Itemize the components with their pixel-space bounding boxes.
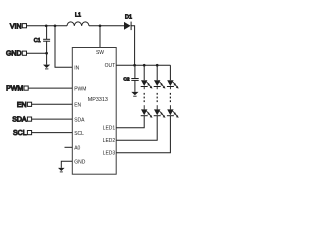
svg-text:MP3313: MP3313	[88, 97, 108, 103]
terminal SDA	[12, 117, 31, 124]
svg-text:SCL: SCL	[74, 131, 84, 137]
svg-text:SW: SW	[96, 50, 104, 56]
svg-text:PWM: PWM	[6, 86, 23, 93]
ground IC GND	[58, 168, 65, 172]
svg-text:EN: EN	[17, 102, 27, 109]
terminal GND	[6, 51, 27, 58]
wire SCL	[32, 132, 73, 134]
svg-text:LED1: LED1	[103, 126, 116, 132]
wire D1 to OUT node	[131, 26, 135, 65]
svg-text:L1: L1	[75, 12, 81, 18]
wire C2 branch	[134, 65, 136, 78]
svg-text:C2: C2	[123, 77, 129, 83]
wire PWM	[28, 87, 72, 89]
svg-text:OUT: OUT	[105, 63, 116, 69]
LED D6 string3 top	[167, 80, 179, 88]
ground below C1	[43, 65, 50, 69]
svg-text:SDA: SDA	[74, 117, 85, 123]
svg-text:GND: GND	[6, 51, 22, 58]
wire IN branch down	[55, 26, 72, 68]
node LED string 1	[143, 64, 146, 67]
wire VIN rail to L1	[27, 25, 68, 27]
wire string2 to LED2 pin	[116, 116, 157, 141]
wire dashed segment	[169, 87, 171, 110]
wire C1 to ground	[46, 41, 48, 64]
terminal SCL	[13, 130, 32, 137]
wire dashed segment	[143, 87, 145, 110]
wire GND terminal	[27, 52, 47, 54]
inductor L1	[67, 12, 89, 25]
wire OUT rail	[116, 64, 170, 66]
node SW junction	[99, 24, 102, 27]
svg-text:PWM: PWM	[74, 86, 86, 92]
wire SDA	[32, 118, 73, 120]
wire SW drop	[99, 26, 101, 48]
wire A0 stub	[65, 146, 73, 148]
terminal EN	[17, 102, 32, 109]
wire LED string 3 drop	[169, 65, 171, 80]
wire LED string 1 drop	[143, 65, 145, 80]
wire string3 to LED3 pin	[116, 116, 170, 153]
LED D2 string1 top	[141, 80, 153, 88]
svg-text:C1: C1	[34, 38, 41, 44]
terminal PWM	[6, 86, 28, 93]
svg-text:D1: D1	[125, 14, 132, 20]
wire string1 to LED1 pin	[116, 116, 144, 128]
svg-text:A0: A0	[74, 146, 80, 152]
svg-text:IN: IN	[74, 66, 79, 72]
wire GND pin	[61, 161, 72, 168]
svg-text:VIN: VIN	[10, 23, 22, 30]
svg-text:SCL: SCL	[13, 130, 27, 137]
wire EN	[32, 103, 73, 105]
ground below C2	[131, 92, 138, 96]
wire C1 branch down	[46, 26, 48, 39]
node D1/C2	[133, 64, 136, 67]
svg-text:LED3: LED3	[103, 151, 116, 157]
terminal VIN	[10, 23, 27, 30]
wire LED string 2 drop	[156, 65, 158, 80]
svg-text:SDA: SDA	[12, 117, 27, 124]
LED D4 string2 top	[154, 80, 166, 88]
node IN junction	[54, 24, 57, 27]
node LED string 2	[156, 64, 159, 67]
IC U1 MP3313	[72, 48, 116, 175]
diode D1	[124, 14, 132, 30]
node C1 junction	[45, 24, 48, 27]
wire C2 to ground	[134, 80, 136, 92]
svg-text:EN: EN	[74, 103, 81, 109]
wire dashed segment	[156, 87, 158, 110]
capacitor C1	[34, 38, 50, 44]
node GND junction	[45, 52, 48, 55]
LED D7 string3 bottom	[167, 109, 179, 117]
svg-text:LED2: LED2	[103, 138, 116, 144]
LED D3 string1 bottom	[141, 109, 153, 117]
capacitor C2	[123, 77, 138, 83]
wire L1 to D1	[89, 25, 124, 27]
LED D5 string2 bottom	[154, 109, 166, 117]
svg-text:GND: GND	[74, 159, 86, 165]
